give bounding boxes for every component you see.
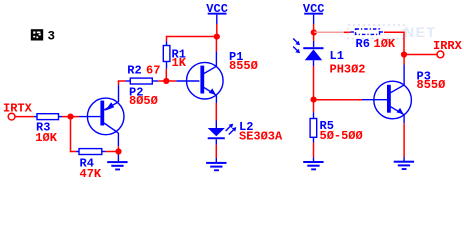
svg-text:855Ø: 855Ø: [417, 78, 446, 92]
selection box around R6: [348, 25, 404, 39]
junction dot d3: [67, 114, 73, 120]
svg-text:5Ø-5ØØ: 5Ø-5ØØ: [320, 129, 363, 143]
svg-text:1ØK: 1ØK: [35, 131, 57, 145]
wire P3 emitter down: [403, 123, 405, 157]
resistor R3: [34, 114, 62, 120]
wire d7 to IRRX: [404, 54, 437, 56]
svg-text:8Ø5Ø: 8Ø5Ø: [129, 94, 158, 108]
junction dot d5: [311, 29, 317, 35]
wire d7 down to P3: [403, 55, 405, 65]
svg-text:R6: R6: [356, 37, 370, 51]
junction dot d1: [163, 78, 169, 84]
wire pale selected net to R6: [314, 31, 344, 33]
port IRTX: [3, 102, 33, 120]
svg-text:PH3Ø2: PH3Ø2: [330, 62, 366, 76]
ground G2: [206, 162, 226, 171]
wire VCC2 stem: [313, 15, 315, 24]
port IRRX: [433, 39, 463, 58]
wire R4 right to d4: [106, 151, 119, 153]
transistor P3: [362, 65, 411, 124]
wire to R6: [344, 31, 351, 33]
junction dot d2: [214, 34, 220, 40]
svg-text:R2: R2: [127, 63, 141, 77]
LED L2: [208, 121, 237, 145]
svg-text:1ØK: 1ØK: [374, 37, 396, 51]
svg-text:NET: NET: [404, 24, 437, 40]
wire R2 right to d1: [158, 80, 166, 82]
svg-text:IRTX: IRTX: [3, 102, 33, 116]
wire R5 bottom: [313, 143, 315, 158]
wire P2 emitter to d4: [117, 146, 119, 151]
svg-text:67: 67: [146, 63, 160, 77]
svg-text:SE3Ø3A: SE3Ø3A: [239, 130, 283, 144]
resistor R6 (selected, dashed): [351, 29, 385, 34]
wire P1 emitter down to L2: [215, 103, 217, 121]
figure caption 图 3: [31, 29, 55, 43]
ground G1: [107, 155, 127, 171]
wire d6 to P3 base: [314, 99, 362, 101]
svg-text:855Ø: 855Ø: [229, 59, 258, 73]
ground G4: [394, 161, 414, 170]
svg-text:IRRX: IRRX: [433, 39, 463, 53]
wire L2 cathode down: [215, 145, 217, 158]
wire d1 to P1 base: [166, 80, 176, 82]
wire L1 bottom to d6: [313, 66, 315, 100]
transistor P2: [79, 85, 124, 146]
junction dot d4: [115, 148, 121, 154]
wire R3 to P2 base: [62, 116, 79, 118]
resistor R1: [163, 42, 170, 69]
wire VCC1 stem: [216, 15, 218, 24]
wire top horizontal to R1: [167, 37, 217, 42]
resistor R2: [126, 78, 159, 84]
wire d3 down to R4: [71, 117, 77, 152]
wire IRTX to R3: [15, 116, 34, 118]
resistor R5: [310, 100, 317, 143]
wire R1 bottom: [165, 69, 167, 81]
svg-text:3: 3: [48, 29, 56, 43]
svg-text:47K: 47K: [80, 167, 102, 181]
photodiode L1: [293, 39, 323, 67]
junction dot d6: [311, 97, 317, 103]
transistor P1: [176, 52, 223, 104]
wire L1 top: [313, 33, 315, 42]
ground G3: [303, 161, 323, 170]
svg-text:L1: L1: [330, 49, 344, 63]
VCC power symbol (left): [206, 2, 228, 16]
junction dot d7: [401, 51, 407, 57]
wire R6 right corner down: [384, 32, 404, 54]
svg-text:1K: 1K: [172, 56, 187, 70]
resistor R4: [76, 149, 106, 155]
wire R2 left corner to P2 collector: [119, 81, 126, 85]
wire P1 collector top: [215, 37, 217, 52]
VCC power symbol (right): [303, 2, 325, 16]
